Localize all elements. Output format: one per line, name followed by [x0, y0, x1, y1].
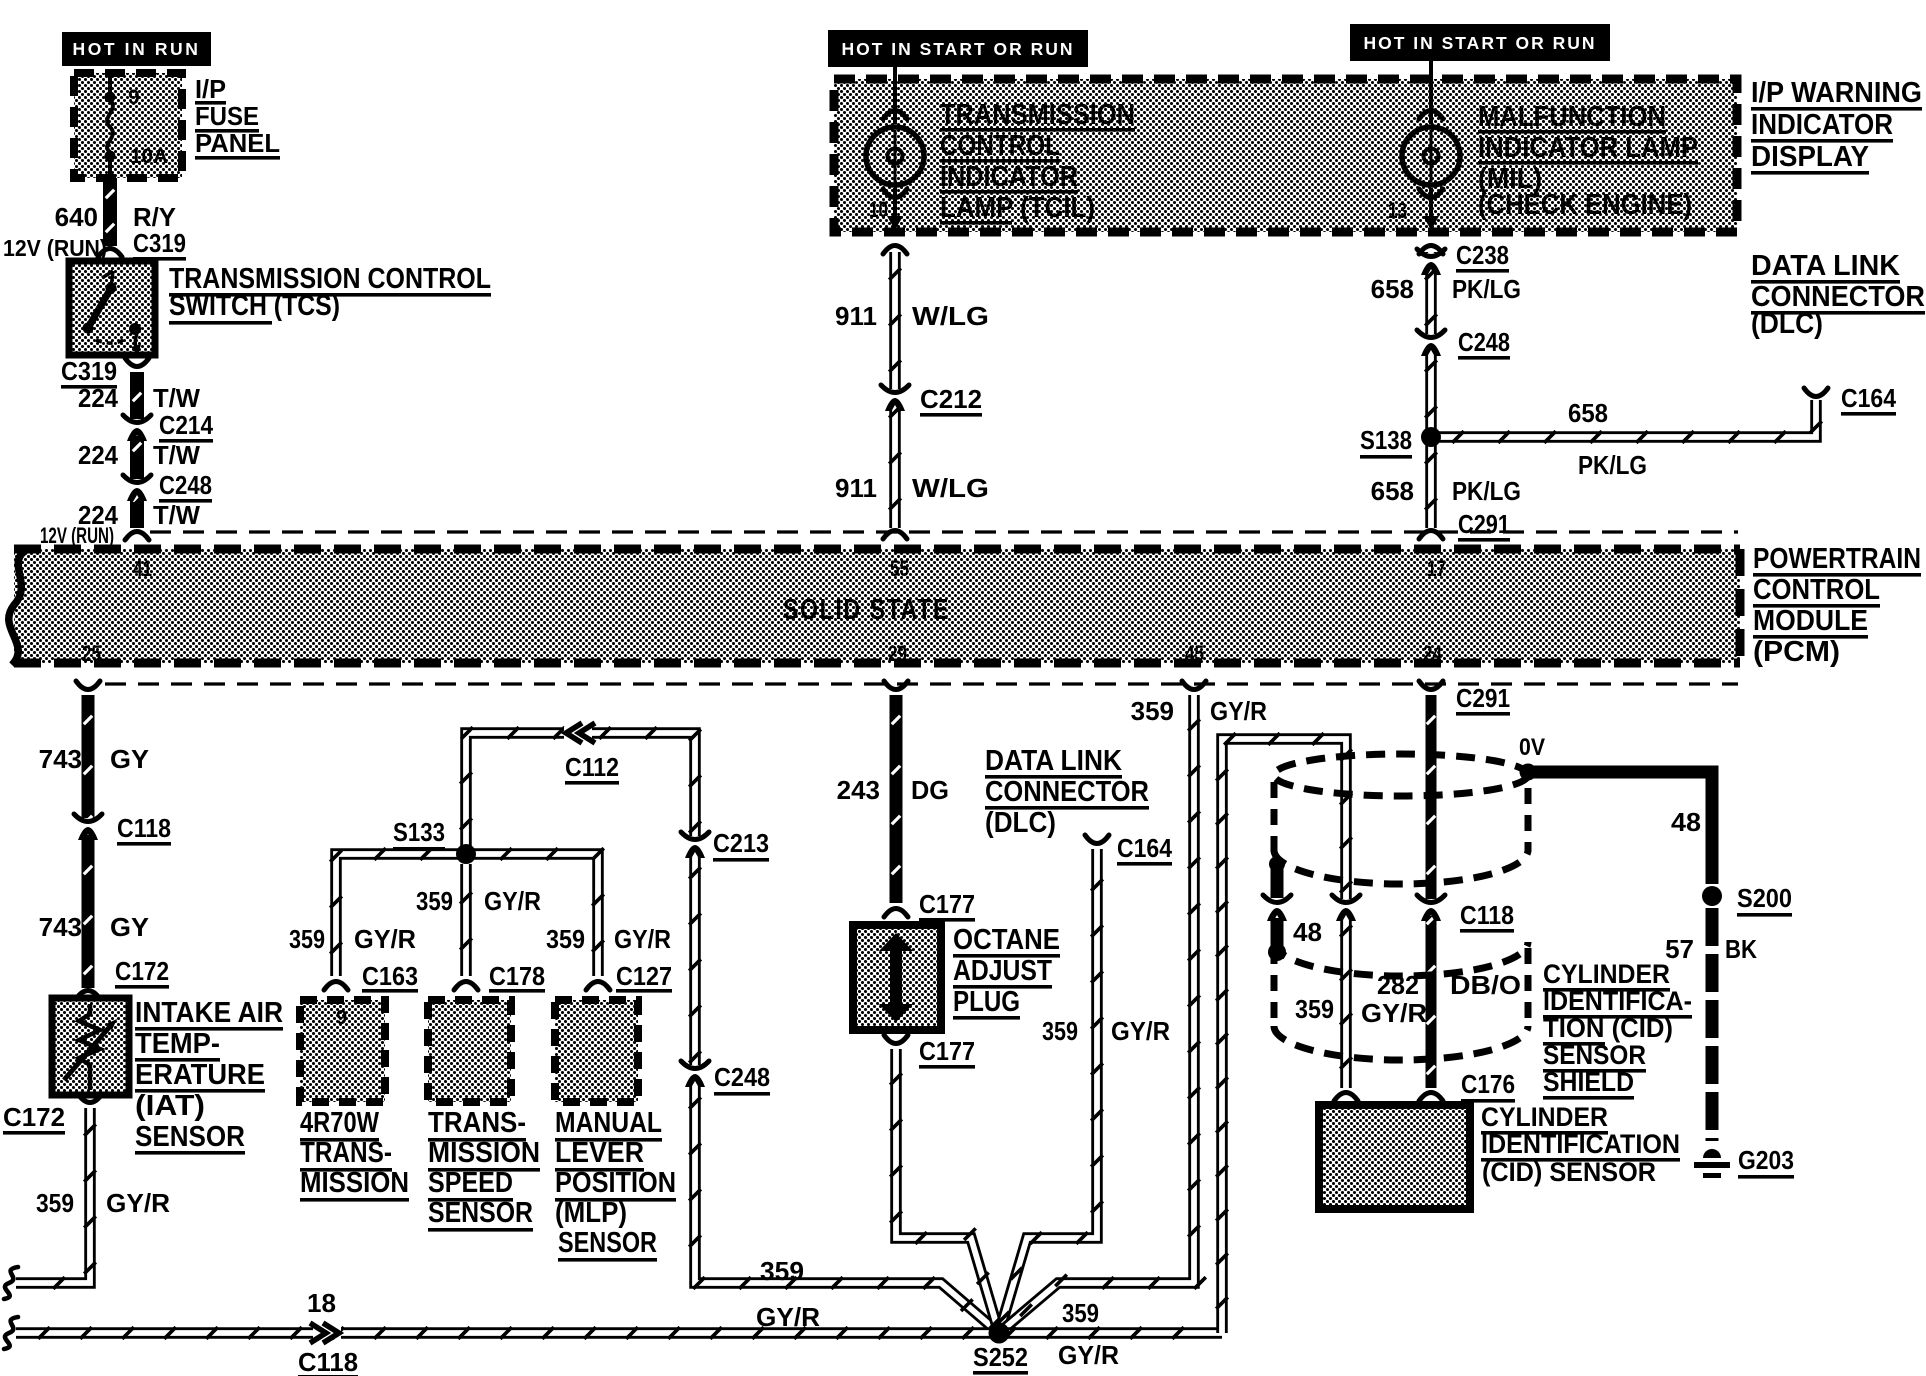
svg-text:SOLID STATE: SOLID STATE — [783, 594, 950, 626]
connector C238 — [1417, 249, 1445, 275]
svg-text:TRANS-: TRANS- — [428, 1107, 526, 1139]
label R/Y — [133, 202, 176, 232]
svg-text:25: 25 — [82, 641, 101, 666]
svg-text:C238: C238 — [1456, 240, 1509, 270]
IAT thermistor symbol — [64, 1004, 117, 1090]
svg-text:C176: C176 — [1461, 1069, 1515, 1099]
wire 658 PK/LG S138 to C164 — [1436, 388, 1828, 443]
label C212 — [920, 384, 982, 417]
svg-text:0V: 0V — [1519, 734, 1545, 761]
fuse panel box (I/P fuse panel) — [74, 73, 182, 178]
connector C118 on stub 48 — [1263, 895, 1291, 921]
connector C118 on shield drain — [1332, 895, 1360, 921]
svg-text:C177: C177 — [919, 1036, 975, 1066]
svg-text:911: 911 — [835, 301, 877, 331]
pin 10 label — [869, 197, 888, 222]
svg-text:18: 18 — [307, 1288, 336, 1318]
svg-text:INDICATOR LAMP: INDICATOR LAMP — [1478, 132, 1698, 164]
svg-text:OCTANE: OCTANE — [953, 924, 1060, 956]
connector C291 label below PCM — [1456, 683, 1510, 716]
svg-text:PLUG: PLUG — [953, 986, 1020, 1018]
svg-text:12V (RUN): 12V (RUN) — [3, 235, 107, 261]
labels 224 T/W third — [78, 500, 200, 530]
labels 658 PK/LG upper — [1371, 274, 1521, 304]
svg-text:INDICATOR: INDICATOR — [940, 161, 1078, 193]
label C248 on wire 658 — [1458, 327, 1510, 360]
cylinder identification CID sensor box — [1319, 1105, 1470, 1209]
PCM pin 41 — [133, 556, 152, 581]
wire 282 DB/O PCM pin 24 to CID sensor — [1419, 681, 1443, 1101]
shield side dashes upper — [1274, 782, 1528, 858]
svg-text:MANUAL: MANUAL — [555, 1107, 662, 1139]
label I/P FUSE PANEL — [195, 74, 280, 160]
wire 359 GY/R PCM pin 45 to S252 — [999, 681, 1206, 1333]
svg-text:C112: C112 — [565, 752, 619, 782]
fuse rating label 10A — [130, 145, 168, 168]
splice S200 — [1702, 886, 1722, 906]
label 640 — [55, 202, 98, 232]
svg-text:I/P WARNING: I/P WARNING — [1751, 77, 1922, 109]
connector C248 on wire 224 — [123, 475, 151, 501]
svg-text:C291: C291 — [1458, 509, 1510, 539]
svg-text:C164: C164 — [1117, 833, 1172, 863]
label OCTANE ADJUST PLUG — [953, 924, 1060, 1020]
svg-text:658: 658 — [1371, 274, 1414, 304]
labels 282 DB/O — [1377, 970, 1521, 1000]
transmission control switch TCS box — [69, 261, 155, 355]
svg-text:SPEED: SPEED — [428, 1167, 513, 1199]
connector C118 on bottom wire 18 — [310, 1323, 341, 1343]
svg-text:W/LG: W/LG — [912, 473, 989, 503]
label I/P WARNING INDICATOR DISPLAY — [1751, 77, 1922, 175]
manual lever position sensor box — [555, 1000, 638, 1102]
label CYLINDER IDENTIFICATION (CID) SENSOR SHIELD — [1543, 959, 1692, 1100]
svg-text:C118: C118 — [298, 1347, 358, 1376]
shield middle arc lower — [1274, 942, 1528, 976]
label C163 — [362, 961, 418, 993]
svg-text:743: 743 — [39, 912, 82, 942]
svg-text:C248: C248 — [714, 1062, 770, 1092]
svg-text:9: 9 — [336, 1007, 347, 1029]
0V node dot — [1520, 764, 1537, 781]
label C172 lower — [3, 1102, 65, 1135]
labels 911 W/LG lower — [835, 473, 989, 503]
svg-text:IDENTIFICA-: IDENTIFICA- — [1543, 986, 1692, 1016]
HOT IN START OR RUN header right — [1350, 24, 1610, 61]
splice S138 — [1421, 427, 1441, 447]
label DATA LINK CONNECTOR (DLC) right — [1751, 250, 1925, 340]
svg-text:359: 359 — [289, 924, 325, 954]
svg-text:SENSOR: SENSOR — [1543, 1040, 1646, 1070]
svg-text:PK/LG: PK/LG — [1578, 450, 1647, 480]
wire 18 BK bottom run with S252 riser to shield drain — [4, 1317, 1222, 1349]
label 4R70W TRANSMISSION — [300, 1107, 409, 1202]
connector C248 on wire 658 — [1417, 330, 1445, 356]
svg-text:C214: C214 — [159, 410, 213, 440]
connector C248 mid — [681, 1061, 709, 1087]
shield drain stub wire 48 — [1268, 856, 1286, 961]
svg-text:10A: 10A — [130, 145, 168, 168]
svg-text:224: 224 — [78, 383, 118, 413]
label C214 — [159, 410, 213, 443]
label C112 — [565, 752, 619, 785]
connector C212 on wire 911 — [881, 385, 909, 411]
PCM pin 25 — [82, 641, 101, 666]
svg-text:48: 48 — [1671, 807, 1701, 837]
wire 359 GY/R octane plug to S252 — [884, 1035, 1002, 1333]
label PK/LG horizontal — [1578, 450, 1647, 480]
svg-text:IDENTIFICATION: IDENTIFICATION — [1481, 1129, 1680, 1159]
svg-text:TRANSMISSION: TRANSMISSION — [940, 99, 1135, 131]
label S138 — [1360, 425, 1412, 459]
svg-text:C164: C164 — [1841, 383, 1896, 413]
labels 359 GY/R IAT — [36, 1188, 170, 1218]
wire 743 GY PCM pin 25 to IAT sensor — [76, 681, 100, 999]
wire 359 GY/R S133 down branch to C178 — [454, 864, 478, 990]
svg-text:GY/R: GY/R — [1111, 1016, 1170, 1046]
svg-text:PK/LG: PK/LG — [1452, 476, 1521, 506]
svg-text:4R70W: 4R70W — [300, 1107, 380, 1139]
svg-text:CYLINDER: CYLINDER — [1481, 1102, 1608, 1132]
labels 743 GY lower — [39, 912, 149, 942]
connector C214 on wire 224 — [123, 415, 151, 441]
HOT IN RUN header — [62, 32, 211, 66]
svg-text:C118: C118 — [1460, 900, 1514, 930]
label 48 right — [1671, 807, 1701, 837]
svg-text:658: 658 — [1371, 476, 1414, 506]
svg-text:CONTROL: CONTROL — [940, 130, 1060, 162]
intake air temperature IAT sensor box — [52, 998, 129, 1095]
labels 658 PK/LG lower — [1371, 476, 1521, 506]
svg-text:(PCM): (PCM) — [1753, 636, 1840, 668]
label C177 upper — [919, 889, 975, 922]
PCM pin 24 — [1423, 641, 1443, 666]
pin 9 label in 4R70W — [336, 1007, 347, 1029]
svg-text:(DLC): (DLC) — [985, 807, 1056, 839]
labels 359 GY/R right branch — [546, 924, 671, 954]
wire 57 BK dashed to ground — [1706, 908, 1719, 1141]
svg-text:17: 17 — [1427, 556, 1446, 581]
TCIL lamp symbol — [866, 127, 924, 185]
svg-text:LEVER: LEVER — [555, 1137, 644, 1169]
connector C319 label upper — [133, 228, 186, 261]
TCIL lamp lower lead with arrow — [883, 188, 907, 230]
svg-text:C172: C172 — [3, 1102, 65, 1132]
shield side dashes lower — [1274, 948, 1528, 1028]
label TRANSMISSION CONTROL SWITCH (TCS) — [169, 263, 491, 325]
shield bottom arc — [1274, 1026, 1528, 1060]
svg-text:(CID) SENSOR: (CID) SENSOR — [1482, 1157, 1656, 1187]
label POWERTRAIN CONTROL MODULE (PCM) — [1753, 543, 1921, 668]
svg-text:HOT IN START OR RUN: HOT IN START OR RUN — [841, 39, 1074, 59]
label C213 — [713, 828, 769, 862]
connector C112 — [564, 723, 595, 743]
svg-text:C212: C212 — [920, 384, 982, 414]
PCM pin 29 — [888, 641, 907, 666]
svg-text:DB/O: DB/O — [1450, 970, 1521, 1000]
svg-text:359: 359 — [1042, 1016, 1078, 1046]
svg-text:S133: S133 — [393, 817, 445, 847]
labels 359 GY/R pin45 — [1131, 696, 1268, 726]
svg-text:DATA LINK: DATA LINK — [985, 745, 1122, 777]
feed wire into TCIL lamp — [883, 67, 907, 124]
svg-text:29: 29 — [888, 641, 907, 666]
label CYLINDER IDENTIFICATION (CID) SENSOR — [1481, 1102, 1680, 1187]
powertrain control module PCM box — [14, 549, 1740, 663]
svg-text:W/LG: W/LG — [912, 301, 989, 331]
wire 640 R/Y from fuse panel — [98, 178, 122, 257]
svg-text:POSITION: POSITION — [555, 1167, 676, 1199]
svg-text:SENSOR: SENSOR — [135, 1121, 245, 1153]
svg-text:S138: S138 — [1360, 425, 1412, 455]
svg-text:LAMP (TCIL): LAMP (TCIL) — [940, 192, 1095, 224]
svg-text:S200: S200 — [1737, 883, 1792, 913]
svg-text:MALFUNCTION: MALFUNCTION — [1478, 101, 1666, 133]
label C248 on TCS wire — [159, 470, 212, 503]
svg-text:PK/LG: PK/LG — [1452, 274, 1521, 304]
svg-text:T/W: T/W — [153, 500, 200, 530]
PCM pin 55 — [890, 556, 909, 581]
svg-text:DISPLAY: DISPLAY — [1751, 141, 1869, 173]
label S133 — [393, 817, 445, 851]
label 0V — [1519, 734, 1545, 761]
HOT IN START OR RUN header middle — [828, 30, 1088, 67]
svg-text:C127: C127 — [616, 961, 672, 991]
wire 359 GY/R S133 up through C112 loop down to C213 C248 and S252 — [460, 727, 999, 1333]
svg-text:GY/R: GY/R — [1210, 696, 1267, 726]
svg-text:13: 13 — [1388, 198, 1407, 223]
svg-text:HOT IN RUN: HOT IN RUN — [72, 39, 200, 59]
pin 13 label — [1388, 198, 1407, 223]
label 658 horizontal — [1568, 398, 1608, 428]
connector C118 on wire 282 — [1417, 895, 1445, 921]
wire 243 DG PCM pin 29 to octane adjust plug — [884, 681, 908, 917]
svg-text:DATA LINK: DATA LINK — [1751, 250, 1900, 282]
labels 359 GY/R at S252 right — [1058, 1298, 1119, 1370]
svg-text:ERATURE: ERATURE — [135, 1059, 265, 1091]
svg-text:(DLC): (DLC) — [1751, 308, 1823, 340]
shield middle arc upper — [1274, 850, 1528, 884]
PCM pin 45 — [1185, 641, 1204, 666]
svg-text:10: 10 — [869, 197, 888, 222]
labels 359 GY/R octane wire — [1042, 1016, 1170, 1046]
svg-text:C172: C172 — [115, 956, 169, 986]
wire 359 GY/R S133 right branch to C127 — [466, 848, 610, 990]
svg-text:243: 243 — [837, 775, 880, 805]
label C118 bottom — [298, 1347, 358, 1376]
svg-text:C163: C163 — [362, 961, 418, 991]
svg-text:658: 658 — [1568, 398, 1608, 428]
CID sensor shield top ellipse — [1274, 754, 1528, 796]
labels 359 GY/R centre branch — [416, 886, 541, 916]
PCM connector dashed line top — [150, 530, 1738, 533]
octane adjust plug box — [853, 925, 941, 1030]
svg-text:MISSION: MISSION — [300, 1167, 409, 1199]
svg-text:C248: C248 — [1458, 327, 1510, 357]
label 48 in shield — [1293, 917, 1322, 947]
I/P warning indicator display box (TCIL and MIL lamps) — [834, 79, 1737, 232]
label TRANSMISSION SPEED SENSOR — [428, 1107, 540, 1232]
labels 743 GY upper — [39, 744, 149, 774]
connector C118 on wire 743 — [74, 814, 102, 840]
label G203 — [1738, 1145, 1794, 1179]
labels 57 BK — [1665, 934, 1757, 964]
svg-text:TION (CID): TION (CID) — [1543, 1013, 1673, 1043]
svg-text:(MLP): (MLP) — [555, 1197, 627, 1229]
MIL lamp symbol — [1402, 127, 1460, 185]
svg-text:743: 743 — [39, 744, 82, 774]
label C176 — [1461, 1069, 1515, 1103]
svg-text:MISSION: MISSION — [428, 1137, 540, 1169]
PCM connector dashed line bottom — [105, 682, 1738, 685]
label C164 middle — [1117, 833, 1172, 866]
octane plug jumper arrow symbol — [879, 933, 913, 1022]
wire 224 T/W from TCS to PCM pin 41 — [125, 358, 149, 540]
label MALFUNCTION INDICATOR LAMP (MIL) (CHECK ENGINE) — [1478, 101, 1698, 221]
label C177 lower — [919, 1036, 975, 1069]
svg-text:S252: S252 — [973, 1342, 1028, 1372]
label 12V (RUN) lower — [40, 523, 114, 548]
svg-text:640: 640 — [55, 202, 98, 232]
svg-text:T/W: T/W — [153, 383, 200, 413]
connector C213 — [681, 832, 709, 858]
labels 359 GY/R left branch — [289, 924, 416, 954]
PCM left continuation squiggle — [9, 549, 28, 665]
label MANUAL LEVER POSITION (MLP) SENSOR — [555, 1107, 676, 1262]
wire 658 PK/LG MIL to PCM pin 17 — [1419, 246, 1443, 540]
labels 224 T/W second — [78, 440, 200, 470]
wire 359 GY/R C164 to S252 — [998, 835, 1109, 1333]
svg-text:359: 359 — [1062, 1298, 1099, 1328]
label C172 upper — [115, 956, 169, 989]
svg-text:359: 359 — [760, 1256, 804, 1286]
svg-text:24: 24 — [1423, 641, 1443, 666]
svg-text:I/P: I/P — [195, 74, 226, 104]
svg-text:TRANS-: TRANS- — [300, 1137, 392, 1169]
label C238 — [1456, 240, 1509, 273]
4R70W transmission box — [300, 1000, 385, 1102]
svg-text:224: 224 — [78, 440, 118, 470]
labels 224 T/W first — [78, 383, 200, 413]
wire 359 GY/R from IAT to left edge — [4, 1094, 102, 1299]
feed wire into MIL lamp — [1419, 61, 1443, 124]
svg-text:TEMP-: TEMP- — [135, 1028, 220, 1060]
svg-text:CONTROL: CONTROL — [1753, 574, 1880, 606]
svg-text:55: 55 — [890, 556, 909, 581]
svg-text:INDICATOR: INDICATOR — [1751, 109, 1893, 141]
labels 359 GY/R bottom of C213 wire — [756, 1256, 820, 1332]
svg-text:C177: C177 — [919, 889, 975, 919]
svg-text:SWITCH (TCS): SWITCH (TCS) — [169, 290, 340, 322]
svg-text:POWERTRAIN: POWERTRAIN — [1753, 543, 1921, 575]
label C118 on wire 743 — [117, 813, 171, 846]
svg-text:GY/R: GY/R — [354, 924, 416, 954]
svg-text:(CHECK ENGINE): (CHECK ENGINE) — [1478, 189, 1692, 221]
fuse position label 9 — [128, 86, 140, 109]
label 18 — [307, 1288, 336, 1318]
svg-text:911: 911 — [835, 473, 877, 503]
transmission speed sensor box — [428, 1000, 511, 1102]
svg-text:CONNECTOR: CONNECTOR — [985, 776, 1149, 808]
svg-text:GY: GY — [110, 912, 149, 942]
label INTAKE AIR TEMPERATURE (IAT) SENSOR — [135, 997, 283, 1155]
splice S252 — [989, 1323, 1010, 1344]
svg-text:41: 41 — [133, 556, 152, 581]
MIL lamp lower lead with arrow — [1419, 188, 1443, 230]
wire 48 BK shield to S200 — [1528, 772, 1712, 884]
svg-text:45: 45 — [1185, 641, 1204, 666]
label DATA LINK CONNECTOR (DLC) middle — [985, 745, 1149, 839]
label SOLID STATE — [783, 594, 950, 626]
svg-text:C118: C118 — [117, 813, 171, 843]
svg-text:T/W: T/W — [153, 440, 200, 470]
label S252 — [973, 1342, 1028, 1375]
svg-text:INTAKE AIR: INTAKE AIR — [135, 997, 283, 1029]
svg-text:C291: C291 — [1456, 683, 1510, 713]
svg-text:GY/R: GY/R — [1058, 1340, 1119, 1370]
label C178 — [489, 961, 545, 993]
svg-text:GY/R: GY/R — [1361, 998, 1427, 1028]
svg-text:12V (RUN): 12V (RUN) — [40, 523, 114, 548]
labels 911 W/LG upper — [835, 301, 989, 331]
svg-text:GY: GY — [110, 744, 149, 774]
svg-text:C319: C319 — [133, 228, 186, 258]
labels 359 GY/R shield — [1295, 994, 1427, 1028]
label S200 — [1737, 883, 1792, 917]
svg-text:48: 48 — [1293, 917, 1322, 947]
svg-text:359: 359 — [416, 886, 453, 916]
label C248 mid — [714, 1062, 770, 1096]
svg-text:359: 359 — [1295, 994, 1334, 1024]
svg-text:GY/R: GY/R — [106, 1188, 170, 1218]
wire 911 W/LG TCIL to PCM pin 55 — [883, 246, 907, 540]
svg-text:CYLINDER: CYLINDER — [1543, 959, 1670, 989]
svg-text:FUSE: FUSE — [195, 101, 259, 131]
svg-text:PANEL: PANEL — [195, 128, 280, 158]
label TRANSMISSION CONTROL INDICATOR LAMP (TCIL) — [940, 99, 1135, 225]
svg-text:SENSOR: SENSOR — [428, 1197, 533, 1229]
svg-text:MODULE: MODULE — [1753, 605, 1868, 637]
svg-text:(IAT): (IAT) — [135, 1090, 205, 1122]
svg-text:C213: C213 — [713, 828, 769, 858]
PCM pin 17 — [1427, 556, 1446, 581]
svg-text:DG: DG — [911, 775, 949, 805]
svg-text:359: 359 — [546, 924, 585, 954]
svg-text:ADJUST: ADJUST — [953, 955, 1052, 987]
TCS switch symbol — [83, 271, 142, 355]
svg-text:HOT IN START OR RUN: HOT IN START OR RUN — [1363, 33, 1596, 53]
labels 243 DG — [837, 775, 949, 805]
splice S133 — [456, 844, 476, 864]
connector C164 label right — [1841, 383, 1896, 416]
svg-text:C319: C319 — [61, 356, 117, 386]
svg-text:GY/R: GY/R — [484, 886, 541, 916]
svg-text:9: 9 — [128, 86, 140, 109]
label C127 — [616, 961, 672, 993]
svg-text:BK: BK — [1725, 934, 1757, 964]
svg-text:SHIELD: SHIELD — [1543, 1067, 1634, 1097]
fuse F9 10A symbol — [105, 73, 116, 178]
label C319 lower — [61, 356, 117, 389]
svg-text:359: 359 — [36, 1188, 74, 1218]
svg-text:282: 282 — [1377, 970, 1419, 1000]
label 12V (RUN) upper — [3, 235, 107, 261]
svg-text:359: 359 — [1131, 696, 1174, 726]
ground G203 symbol — [1694, 1149, 1730, 1178]
connector C291 label upper — [1458, 509, 1510, 542]
svg-text:SENSOR: SENSOR — [558, 1227, 657, 1259]
svg-text:C178: C178 — [489, 961, 545, 991]
